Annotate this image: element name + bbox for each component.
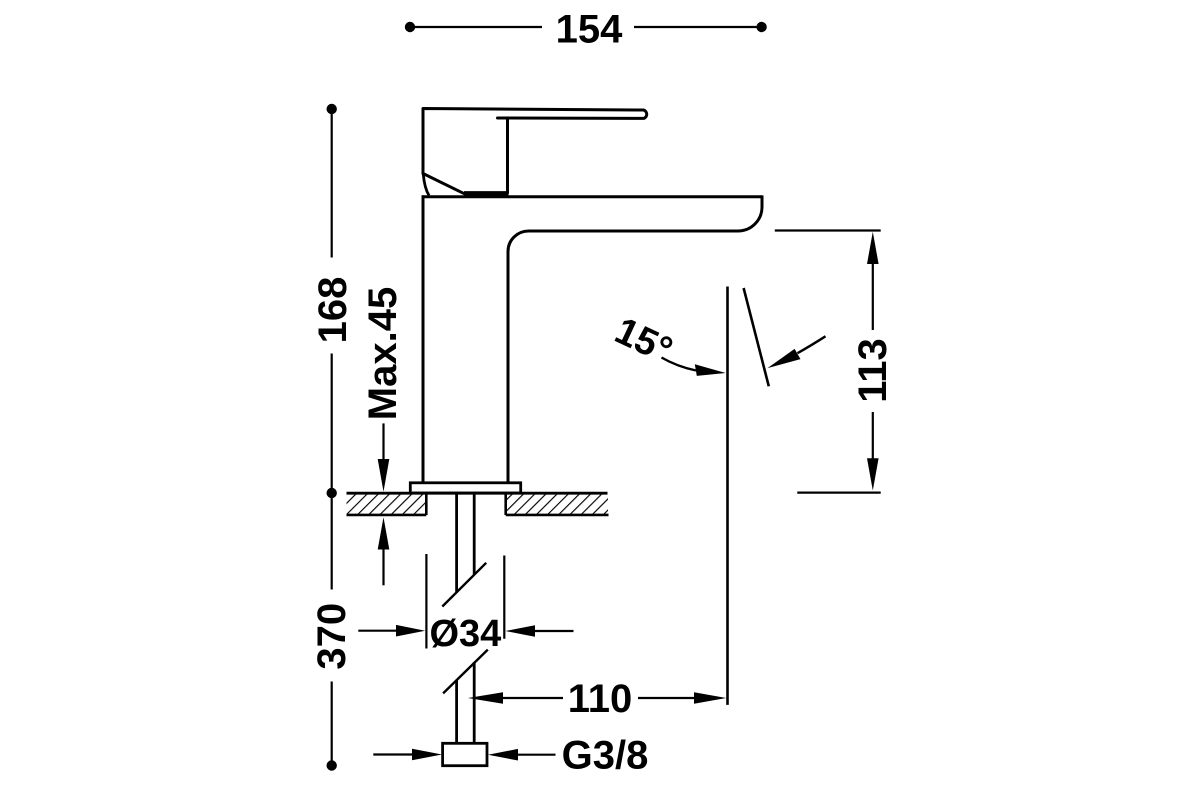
15 degree arrowhead (695, 364, 726, 376)
Max.45 upper arrow stem (382, 423, 384, 462)
G3/8 left arrowhead (412, 749, 442, 761)
handle neck vertical (506, 119, 509, 194)
G3/8 right arrow stem (515, 754, 556, 756)
Max.45 lower arrowhead (378, 517, 390, 549)
dimension 168/370 top dot (327, 104, 337, 114)
countertop hole left edge (425, 493, 428, 515)
flow arrowhead (768, 349, 801, 368)
dimension 113 bottom extension line (797, 492, 880, 494)
dimension 370 line lower segment (331, 682, 333, 766)
cartridge line (thick) (464, 191, 509, 196)
countertop hole right edge (504, 493, 507, 515)
lever handle outline (423, 109, 647, 174)
diameter 34 left extension line (425, 554, 427, 649)
dimension 113 upper stem (872, 261, 874, 330)
dimension 113 lower stem (872, 412, 874, 462)
svg-text:168: 168 (311, 277, 355, 344)
svg-text:15°: 15° (609, 310, 679, 372)
aerator tilted line (15 deg) (744, 288, 769, 386)
dimension 154 left dot (405, 22, 415, 32)
aerator axis vertical line (726, 287, 729, 705)
dimension 110 right arrowhead (694, 692, 726, 704)
dimension 110 right stem (638, 697, 697, 699)
svg-text:110: 110 (568, 677, 633, 721)
G3/8 left arrow stem (373, 753, 415, 755)
flow arrow stem (curved) (798, 336, 826, 353)
countertop bottom line right (506, 514, 609, 517)
dimension 110 left arrowhead (468, 692, 503, 704)
dimension 154 line left segment (410, 26, 542, 28)
countertop top surface line (347, 492, 608, 495)
Max.45 lower arrow stem (382, 546, 384, 585)
dimension 110 left stem (500, 697, 563, 699)
diameter 34 right arrowhead (506, 625, 536, 637)
diameter 34 right extension line (503, 556, 505, 639)
diameter 34 left arrow stem (358, 630, 399, 632)
15 degree arrow stem (curved) (662, 358, 697, 371)
dimension 370 bottom dot (327, 760, 337, 770)
dimension 370 line upper segment (331, 493, 333, 590)
countertop hatched band left (347, 493, 427, 515)
svg-text:G3/8: G3/8 (562, 734, 649, 778)
svg-text:Ø34: Ø34 (429, 613, 501, 655)
base flange (410, 483, 520, 493)
supply shank right line lower (473, 662, 476, 743)
dimension 154 right dot (756, 22, 766, 32)
dimension 154 line right segment (634, 26, 762, 28)
supply shank right line upper (473, 493, 476, 575)
dimension 113 top extension line (775, 229, 881, 231)
spout right edge and underside (508, 195, 762, 483)
handle base diagonal (423, 174, 466, 195)
svg-text:113: 113 (851, 338, 895, 403)
svg-text:Max.45: Max.45 (361, 287, 405, 420)
dimension 113 bottom arrowhead (867, 458, 879, 490)
countertop bottom line left (347, 514, 427, 517)
supply shank left line upper (455, 493, 458, 592)
svg-text:370: 370 (310, 603, 354, 670)
diameter 34 left arrowhead (396, 625, 425, 637)
handle front arc (423, 175, 429, 196)
body top line (422, 195, 762, 198)
G3/8 connector square (443, 743, 487, 765)
G3/8 right arrowhead (488, 749, 518, 761)
diameter 34 right arrow stem (532, 630, 574, 632)
break slash upper (442, 563, 486, 607)
Max.45 upper arrowhead (378, 459, 390, 492)
svg-text:154: 154 (556, 8, 623, 52)
countertop hatched band right (506, 493, 608, 515)
dimension 168/370 middle dot (327, 488, 337, 498)
supply shank left line lower (455, 680, 458, 743)
body left edge (422, 195, 425, 483)
dimension 168 line upper segment (331, 109, 333, 258)
dimension 168 line lower segment (331, 354, 333, 494)
dimension 113 top arrowhead (867, 232, 879, 264)
break slash lower (443, 650, 488, 694)
